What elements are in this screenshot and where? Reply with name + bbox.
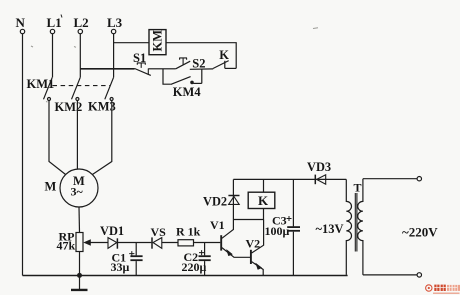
svg-text:K: K	[258, 193, 269, 208]
capacitor C3 100u	[265, 179, 301, 275]
svg-text:M: M	[45, 180, 57, 194]
wire L2 vertical	[79, 34, 81, 78]
wire S1 to junction A	[148, 68, 163, 70]
dc top rail	[233, 178, 346, 180]
contactor coil KM	[149, 30, 166, 55]
wire L2 to S1	[80, 68, 134, 70]
svg-text:VD3: VD3	[307, 160, 331, 174]
potentiometer RP 47k	[57, 230, 109, 253]
svg-text:R 1k: R 1k	[176, 225, 201, 239]
wire motor to RP	[78, 207, 81, 233]
svg-text:VD2: VD2	[203, 195, 227, 209]
resistor R 1k	[176, 225, 201, 246]
transistor V2	[246, 220, 264, 276]
wire KM3 to motor	[92, 101, 111, 175]
wire L3 to KM coil	[114, 42, 149, 44]
svg-text:~220V: ~220V	[402, 225, 438, 240]
wire L3 vertical	[113, 34, 115, 78]
pushbutton S2 (NO)	[163, 56, 213, 70]
contact KM2	[55, 77, 83, 114]
svg-text:L3: L3	[107, 15, 123, 30]
svg-text:KM2: KM2	[55, 100, 83, 114]
junction dot	[77, 273, 82, 278]
svg-text:~13V: ~13V	[316, 222, 344, 236]
diode VD1	[100, 224, 124, 249]
terminal L1	[47, 15, 62, 34]
terminal right top	[417, 177, 421, 181]
transformer T	[346, 179, 363, 275]
diode VD2	[203, 179, 240, 219]
terminal right bottom	[417, 273, 421, 277]
svg-text:VD1: VD1	[100, 224, 124, 238]
auxiliary contact KM4	[163, 69, 202, 99]
primary 13V winding	[346, 179, 351, 275]
wire to right top terminal	[363, 178, 417, 180]
svg-text:VS: VS	[151, 225, 167, 239]
svg-text:S2: S2	[192, 56, 205, 70]
contact KM3	[88, 77, 116, 113]
svg-text:3~: 3~	[71, 185, 84, 199]
relay coil K	[248, 179, 275, 219]
thyristor VS	[151, 225, 167, 249]
collector rail	[233, 219, 263, 221]
wire to right bottom terminal	[363, 274, 417, 276]
svg-text:K: K	[219, 48, 229, 62]
terminal L3	[107, 15, 123, 34]
motor M	[45, 169, 99, 207]
watermark logo	[426, 285, 460, 294]
transistor V1	[210, 218, 250, 257]
core	[354, 193, 356, 252]
relay contact K	[213, 48, 236, 69]
wire L1 vertical	[52, 34, 54, 78]
svg-text:L2: L2	[74, 15, 89, 30]
secondary 220V winding	[358, 179, 363, 275]
terminal N	[16, 15, 26, 34]
contact KM1	[27, 77, 55, 101]
terminal L2	[74, 15, 89, 34]
svg-text:N: N	[16, 15, 26, 30]
wire KM2 to motor	[76, 101, 78, 170]
dashed mechanical link	[53, 85, 111, 87]
wire VS to R	[162, 242, 178, 244]
svg-text:220μ: 220μ	[182, 260, 207, 274]
svg-text:KM4: KM4	[173, 85, 202, 99]
wire KM coil to K contact	[166, 43, 236, 69]
capacitor C1 33u	[111, 243, 143, 276]
svg-text:33μ: 33μ	[111, 260, 130, 274]
ground	[71, 276, 88, 290]
svg-text:KM: KM	[151, 30, 165, 52]
wire VD1 to VS	[118, 242, 152, 244]
svg-text:V1: V1	[210, 218, 225, 232]
wire bottom rail	[23, 275, 348, 277]
wire RP to ground rail	[79, 252, 81, 276]
wire R to V1 base	[194, 242, 221, 244]
diode VD3	[307, 160, 331, 184]
wire KM1 to motor	[49, 101, 66, 175]
speckle apostrophe near L1	[61, 15, 62, 18]
wire N vertical	[22, 34, 24, 276]
pushbutton S1 (NC)	[133, 51, 151, 75]
svg-text:L1: L1	[47, 15, 62, 30]
capacitor C2 220u	[182, 243, 211, 276]
svg-text:T: T	[354, 181, 362, 195]
svg-text:47k: 47k	[57, 239, 76, 253]
svg-text:100μ: 100μ	[265, 224, 290, 238]
